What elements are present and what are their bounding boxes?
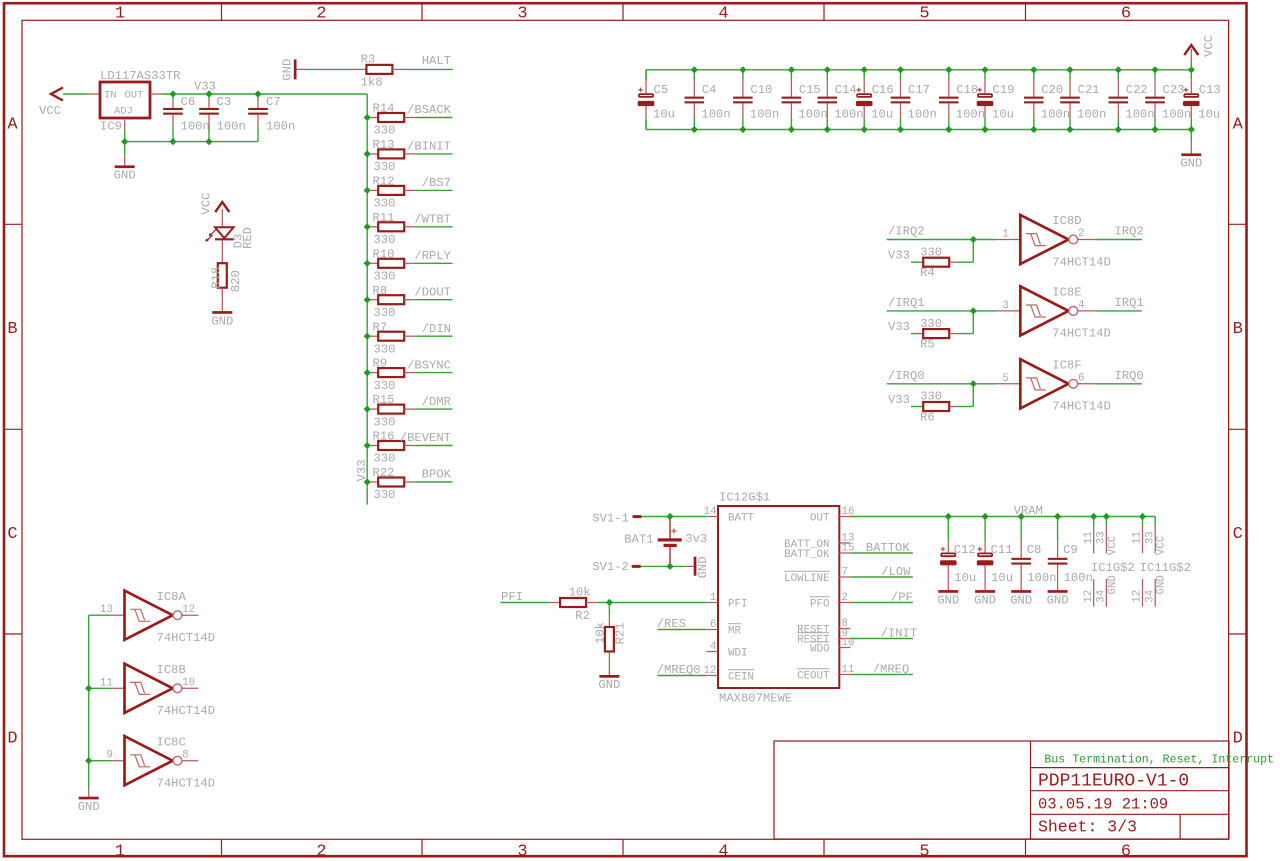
svg-text:V33: V33 — [888, 393, 910, 407]
junction C21 top — [1066, 66, 1073, 73]
junction C4 top — [691, 66, 698, 73]
svg-text:10u: 10u — [954, 571, 976, 585]
svg-text:10u: 10u — [991, 571, 1013, 585]
svg-text:IN: IN — [104, 90, 117, 102]
svg-text:33: 33 — [1096, 531, 1108, 544]
svg-text:C8: C8 — [1027, 543, 1042, 557]
power pins VCC IC11G$2 — [1132, 517, 1168, 556]
svg-text:2: 2 — [316, 4, 326, 23]
inverter IC8F 74HCT14D — [1002, 359, 1111, 414]
svg-text:330: 330 — [374, 270, 396, 284]
svg-text:/WTBT: /WTBT — [414, 213, 451, 227]
svg-text:RED: RED — [241, 227, 255, 249]
battery BAT1 3v3 — [624, 517, 707, 567]
resistor R3 1k8 — [355, 53, 404, 90]
svg-text:LD117AS33TR: LD117AS33TR — [100, 69, 180, 83]
resistor R12 330 — [367, 175, 415, 211]
svg-text:/INIT: /INIT — [881, 627, 918, 641]
pin 16 OUT — [810, 506, 854, 525]
capacitor C19 10u — [977, 70, 1015, 130]
svg-text:7: 7 — [842, 567, 848, 579]
ground symbol below C8 — [1011, 590, 1031, 593]
svg-text:C20: C20 — [1041, 83, 1063, 97]
wire R6 to junction — [958, 384, 974, 407]
svg-text:1k8: 1k8 — [361, 75, 383, 89]
svg-text:74HCT14D: 74HCT14D — [1052, 400, 1111, 414]
svg-text:C23: C23 — [1163, 83, 1185, 97]
wire bottom rail to GND — [1190, 130, 1192, 154]
capacitor C17 100n — [891, 70, 937, 130]
wire /RPLY — [416, 262, 453, 264]
svg-text:10k: 10k — [593, 622, 607, 644]
svg-text:IRQ0: IRQ0 — [1115, 369, 1144, 383]
svg-text:6: 6 — [1121, 843, 1131, 861]
svg-text:R5: R5 — [920, 337, 935, 351]
wire R5 to junction — [958, 311, 974, 334]
svg-text:100n: 100n — [908, 108, 937, 122]
junction ladder R13 — [364, 150, 371, 157]
resistor R2 10k — [549, 586, 597, 624]
pin IC8C input stub — [111, 760, 125, 762]
pin 2 PFO — [810, 592, 850, 611]
svg-text:OUT: OUT — [810, 513, 830, 525]
pin IC9 OUT stub — [150, 93, 162, 95]
svg-text:VCC: VCC — [1156, 535, 1168, 555]
svg-text:IC8D: IC8D — [1052, 214, 1081, 228]
junction C14 bottom — [824, 126, 831, 133]
wire rail to GND symbol — [124, 142, 126, 156]
pin IC8F input stub — [996, 383, 1020, 385]
svg-text:GND: GND — [1047, 593, 1069, 607]
power pins GND IC11G$2 — [1132, 575, 1168, 607]
svg-text:VCC: VCC — [1202, 35, 1216, 57]
svg-text:3: 3 — [1002, 300, 1008, 312]
junction C17 top — [897, 66, 904, 73]
svg-text:IC1G$2: IC1G$2 — [1091, 561, 1135, 575]
svg-text:10: 10 — [182, 677, 195, 689]
wire /RES to MR — [658, 629, 707, 631]
pin 6 MR — [706, 619, 741, 638]
svg-text:12: 12 — [1083, 590, 1095, 603]
svg-text:BATTOK: BATTOK — [866, 541, 911, 555]
junction C17 bottom — [897, 126, 904, 133]
svg-text:6: 6 — [1078, 373, 1084, 385]
junction ladder R16 — [364, 442, 371, 449]
svg-text:/BS7: /BS7 — [422, 176, 451, 190]
svg-text:/MREQ: /MREQ — [873, 663, 910, 677]
resistor R7 330 — [367, 320, 415, 356]
junction C19 top — [981, 66, 988, 73]
resistor R22 330 — [367, 466, 415, 502]
junction ladder R15 — [364, 406, 371, 413]
svg-text:2: 2 — [1078, 228, 1084, 240]
svg-text:A: A — [1233, 115, 1244, 134]
svg-text:R16: R16 — [373, 430, 395, 444]
svg-text:GND: GND — [1107, 575, 1119, 594]
resistor R13 330 — [367, 138, 415, 174]
junction VRAM C8 — [1018, 513, 1025, 520]
svg-text:3: 3 — [517, 4, 527, 23]
junction SV1-2 / BAT1 — [666, 563, 673, 570]
resistor R15 330 — [367, 393, 415, 429]
wire /DOUT — [416, 299, 453, 301]
svg-text:10u: 10u — [653, 108, 675, 122]
junction ladder R11 — [364, 223, 371, 230]
pin IC8B input stub — [111, 687, 125, 689]
pin 7 LOWLINE — [784, 567, 850, 586]
wire net VRAM — [851, 517, 1156, 526]
junction ladder R8 — [364, 296, 371, 303]
junction C20 bottom — [1030, 126, 1037, 133]
svg-text:LOWLINE: LOWLINE — [784, 573, 829, 585]
svg-text:820: 820 — [229, 270, 243, 292]
inverter IC8E 74HCT14D — [1002, 286, 1111, 341]
wire GND bottom rail of regulator — [125, 141, 258, 143]
wire VCC top rail of capacitor bank — [646, 70, 1191, 80]
wire VCC symbol to rail — [1190, 49, 1192, 70]
wire /WTBT — [416, 226, 453, 228]
svg-text:100n: 100n — [1162, 108, 1191, 122]
svg-text:/BEVENT: /BEVENT — [400, 431, 451, 445]
wire /DMR — [416, 408, 453, 410]
capacitor C22 100n — [1109, 70, 1155, 130]
svg-text:PFO: PFO — [810, 599, 829, 611]
wire BATTOK — [851, 552, 913, 554]
svg-text:/BINIT: /BINIT — [407, 140, 451, 154]
junction VRAM C11 — [982, 513, 989, 520]
svg-text:IRQ1: IRQ1 — [1115, 296, 1144, 310]
junction C15 top — [788, 66, 795, 73]
svg-text:03.05.19 21:09: 03.05.19 21:09 — [1038, 795, 1168, 813]
svg-text:V33: V33 — [888, 249, 910, 263]
wire /MREQ — [851, 674, 913, 676]
svg-text:100n: 100n — [181, 119, 210, 133]
svg-text:330: 330 — [920, 390, 942, 404]
svg-text:Sheet: 3/3: Sheet: 3/3 — [1038, 817, 1137, 836]
resistor R11 330 — [367, 211, 415, 247]
svg-text:IC8E: IC8E — [1052, 286, 1081, 300]
wire VCC to IC9 IN — [63, 93, 89, 95]
svg-text:330: 330 — [374, 488, 396, 502]
svg-text:10u: 10u — [1198, 108, 1220, 122]
svg-text:GND: GND — [696, 556, 710, 578]
svg-text:V33: V33 — [194, 80, 216, 94]
junction C3 bottom — [205, 138, 212, 145]
svg-text:V33: V33 — [888, 320, 910, 334]
junction C18 bottom — [945, 126, 952, 133]
svg-text:5: 5 — [1002, 373, 1008, 385]
capacitor C20 100n — [1024, 70, 1070, 130]
svg-text:IC8F: IC8F — [1052, 359, 1081, 373]
pin IC8E input stub — [996, 310, 1020, 312]
svg-text:10u: 10u — [992, 108, 1014, 122]
wire R3 to HALT — [404, 68, 453, 70]
svg-text:R3: R3 — [361, 53, 376, 67]
wire ADJ to rail — [124, 130, 126, 142]
svg-text:/DOUT: /DOUT — [414, 285, 451, 299]
svg-text:R8: R8 — [373, 284, 388, 298]
junction C19 bottom — [981, 126, 988, 133]
svg-text:CEOUT: CEOUT — [797, 671, 830, 683]
wire input IC8A — [89, 614, 111, 616]
svg-text:4: 4 — [718, 843, 728, 861]
svg-text:100n: 100n — [798, 108, 827, 122]
svg-text:R21: R21 — [614, 622, 628, 644]
svg-text:PDP11EURO-V1-0: PDP11EURO-V1-0 — [1038, 771, 1189, 791]
svg-text:100n: 100n — [1077, 108, 1106, 122]
resistor R16 330 — [367, 430, 415, 466]
node SV1-1 — [592, 511, 642, 525]
svg-text:1: 1 — [115, 4, 125, 23]
pin 13 BATT_ON — [784, 533, 854, 552]
wire /IRQ0 input — [887, 383, 997, 385]
ground symbol at SV1-2 — [685, 556, 710, 578]
svg-text:34: 34 — [1144, 590, 1156, 603]
wire R18 to GND — [221, 288, 223, 311]
svg-text:C11: C11 — [991, 543, 1013, 557]
capacitor C5 10u — [638, 70, 675, 130]
svg-text:C19: C19 — [993, 83, 1015, 97]
svg-text:GND: GND — [1156, 575, 1168, 594]
wire IRQ1 output — [1094, 310, 1142, 312]
resistor R8 330 — [367, 284, 415, 320]
svg-text:GND: GND — [598, 678, 620, 692]
svg-text:C22: C22 — [1126, 83, 1148, 97]
wire V33 to R5 — [911, 333, 923, 335]
junction VRAM C12 — [945, 513, 952, 520]
svg-text:100n: 100n — [1064, 571, 1093, 585]
svg-text:B: B — [7, 320, 17, 339]
svg-text:IC9: IC9 — [100, 120, 122, 134]
svg-text:100n: 100n — [701, 108, 730, 122]
svg-text:C13: C13 — [1199, 83, 1221, 97]
svg-text:IC12G$1: IC12G$1 — [719, 491, 770, 505]
svg-text:C7: C7 — [266, 95, 281, 109]
junction C6 bottom — [169, 138, 176, 145]
svg-text:/LOW: /LOW — [881, 565, 911, 579]
junction ladder R22 — [364, 478, 371, 485]
svg-text:330: 330 — [374, 233, 396, 247]
svg-text:100n: 100n — [750, 108, 779, 122]
svg-text:330: 330 — [374, 415, 396, 429]
capacitor C23 100n — [1145, 70, 1191, 130]
LED D3 RED — [205, 227, 255, 249]
junction /IRQ2 — [970, 236, 977, 243]
wire /DIN — [416, 335, 453, 337]
svg-text:34: 34 — [1096, 590, 1108, 603]
svg-text:/DMR: /DMR — [422, 395, 451, 409]
svg-text:WDI: WDI — [728, 648, 747, 660]
svg-text:5: 5 — [919, 843, 929, 861]
inverter IC8A 74HCT14D — [100, 590, 215, 645]
junction C20 top — [1030, 66, 1037, 73]
svg-text:Bus Termination, Reset, Interr: Bus Termination, Reset, Interrupt — [1044, 754, 1274, 767]
svg-text:C16: C16 — [872, 83, 894, 97]
wire IRQ0 output — [1094, 383, 1142, 385]
inverter IC8C 74HCT14D — [107, 735, 216, 790]
wire /INIT — [851, 638, 913, 640]
junction C10 top — [739, 66, 746, 73]
svg-text:R12: R12 — [373, 175, 395, 189]
capacitor C8 100n — [1011, 517, 1056, 591]
svg-text:C: C — [7, 525, 17, 544]
capacitor C6 — [163, 94, 210, 142]
svg-text:C15: C15 — [799, 83, 821, 97]
svg-text:/IRQ1: /IRQ1 — [888, 296, 925, 310]
svg-text:1: 1 — [115, 843, 125, 861]
svg-text:2: 2 — [842, 592, 848, 604]
svg-text:100n: 100n — [1041, 108, 1070, 122]
capacitor C11 10u — [977, 517, 1013, 591]
svg-text:A: A — [7, 115, 18, 134]
svg-text:3: 3 — [517, 843, 527, 861]
wire SV1-2 to GND — [641, 565, 685, 567]
pin 1 PFI — [706, 592, 747, 611]
pin 11 CEOUT — [797, 664, 854, 683]
svg-text:100n: 100n — [266, 119, 295, 133]
svg-text:4: 4 — [718, 4, 728, 23]
capacitor C10 100n — [733, 70, 779, 130]
power pins GND IC1G$2 — [1083, 575, 1119, 607]
wire V33 to R6 — [911, 406, 923, 408]
svg-text:BAT1: BAT1 — [624, 533, 653, 547]
svg-text:/BSACK: /BSACK — [407, 103, 452, 117]
svg-text:74HCT14D: 74HCT14D — [157, 704, 216, 718]
svg-text:3v3: 3v3 — [685, 532, 707, 546]
pin IC9 ADJ stub — [124, 118, 126, 130]
junction ladder R7 — [364, 333, 371, 340]
svg-text:R14: R14 — [373, 102, 395, 116]
svg-text:100n: 100n — [956, 108, 985, 122]
svg-text:R22: R22 — [373, 466, 395, 480]
junction C23 top — [1151, 66, 1158, 73]
svg-text:SV1-2: SV1-2 — [592, 560, 629, 574]
capacitor C12 10u — [940, 517, 976, 591]
ground symbol at R3 — [280, 59, 306, 81]
svg-text:330: 330 — [920, 245, 942, 259]
svg-text:C9: C9 — [1063, 543, 1078, 557]
wire input IC8C — [89, 760, 111, 762]
wire GND to R3 — [306, 68, 355, 70]
junction ladder R10 — [364, 260, 371, 267]
svg-text:R10: R10 — [373, 247, 395, 261]
svg-text:GND: GND — [1180, 157, 1202, 171]
resistor R9 330 — [367, 357, 415, 393]
svg-text:GND: GND — [211, 314, 233, 328]
svg-text:MR: MR — [728, 626, 741, 638]
ground symbol below C11 — [975, 590, 995, 593]
wire net V33 top rail — [162, 94, 368, 118]
wire R4 to junction — [958, 240, 974, 263]
resistor R18 820 — [209, 263, 243, 292]
svg-text:330: 330 — [920, 317, 942, 331]
svg-text:8: 8 — [182, 749, 188, 761]
resistor R4 330 — [920, 245, 957, 280]
svg-text:330: 330 — [374, 379, 396, 393]
junction C3 top — [205, 90, 212, 97]
pin 15 BATT_OK — [784, 543, 854, 562]
capacitor C16 10u — [856, 70, 894, 130]
svg-text:IRQ2: IRQ2 — [1115, 225, 1144, 239]
wire inverter inputs to GND column — [88, 615, 90, 789]
svg-text:1: 1 — [710, 592, 716, 604]
svg-text:C18: C18 — [956, 83, 978, 97]
svg-text:/IRQ0: /IRQ0 — [888, 369, 925, 383]
junction C18 top — [945, 66, 952, 73]
svg-text:4: 4 — [1078, 300, 1084, 312]
junction C22 bottom — [1115, 126, 1122, 133]
wire /LOW — [851, 576, 913, 578]
inverter IC8D 74HCT14D — [1002, 214, 1111, 269]
svg-text:6: 6 — [710, 619, 716, 631]
svg-text:10k: 10k — [569, 586, 591, 600]
svg-text:330: 330 — [374, 197, 396, 211]
junction C13 top — [1188, 66, 1195, 73]
capacitor C18 100n — [939, 70, 985, 130]
svg-text:2: 2 — [316, 843, 326, 861]
svg-text:R9: R9 — [373, 357, 388, 371]
svg-text:B: B — [1233, 320, 1243, 339]
svg-text:C10: C10 — [750, 83, 772, 97]
svg-text:330: 330 — [374, 124, 396, 138]
svg-text:IC8C: IC8C — [157, 735, 186, 749]
svg-text:74HCT14D: 74HCT14D — [1052, 255, 1111, 269]
node SV1-2 — [592, 560, 641, 574]
svg-text:11: 11 — [100, 677, 113, 689]
capacitor C21 100n — [1060, 70, 1106, 130]
junction VRAM IC11 pin11 — [1139, 513, 1146, 520]
svg-text:PFI: PFI — [728, 599, 747, 611]
svg-text:GND: GND — [974, 593, 996, 607]
wire input IC8B — [89, 687, 111, 689]
svg-text:VCC: VCC — [200, 193, 214, 215]
inverter IC8B 74HCT14D — [100, 663, 215, 718]
ground symbol at capacitor bank — [1181, 153, 1201, 156]
wire R2 to PFI pin — [597, 602, 707, 604]
svg-text:BPOK: BPOK — [422, 468, 452, 482]
pin 12 CEIN — [704, 665, 754, 684]
svg-text:R7: R7 — [373, 320, 388, 334]
wire column to GND — [88, 789, 90, 797]
svg-text:6: 6 — [1121, 4, 1131, 23]
svg-text:SV1-1: SV1-1 — [592, 511, 629, 525]
svg-text:R15: R15 — [373, 393, 395, 407]
svg-text:R4: R4 — [920, 266, 935, 280]
junction SV1-1 / BAT1 — [666, 513, 673, 520]
junction C16 top — [861, 66, 868, 73]
junction C22 top — [1115, 66, 1122, 73]
svg-text:/BSYNC: /BSYNC — [407, 358, 451, 372]
junction C23 bottom — [1151, 126, 1158, 133]
junction C13 bottom — [1188, 126, 1195, 133]
svg-text:C5: C5 — [654, 83, 669, 97]
svg-text:12: 12 — [182, 604, 195, 616]
ground symbol below C12 — [938, 590, 958, 593]
svg-text:WDO: WDO — [810, 644, 829, 656]
junction ladder R14 — [364, 114, 371, 121]
svg-text:R2: R2 — [575, 609, 590, 623]
junction C14 top — [824, 66, 831, 73]
svg-text:OUT: OUT — [125, 90, 144, 102]
svg-text:HALT: HALT — [422, 54, 451, 68]
svg-text:VCC: VCC — [39, 104, 61, 118]
pin 10 WDO — [810, 637, 854, 656]
svg-text:/RPLY: /RPLY — [414, 249, 451, 263]
junction C21 bottom — [1066, 126, 1073, 133]
wire /BSACK — [416, 117, 453, 119]
resistor R21 10k — [593, 603, 627, 676]
junction C4 bottom — [691, 126, 698, 133]
